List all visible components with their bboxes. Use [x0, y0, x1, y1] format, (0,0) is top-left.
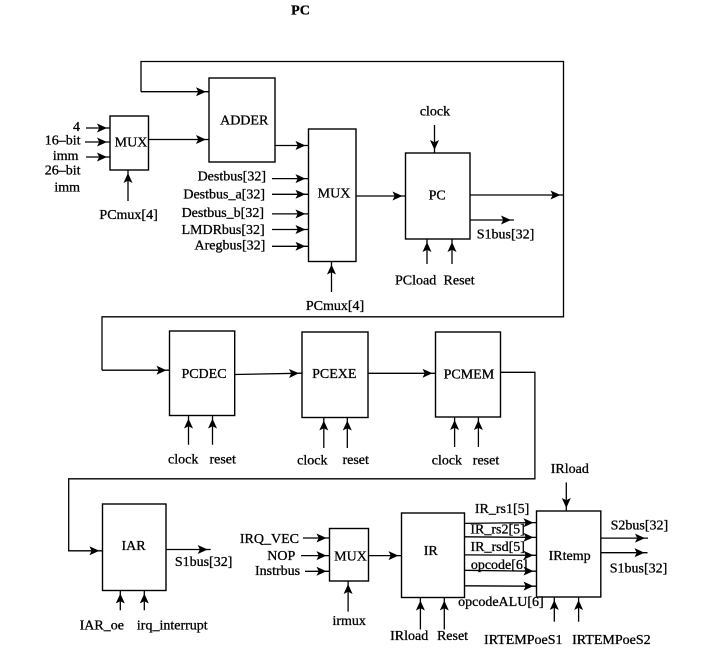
wire PCmux[4] select into M2 [331, 262, 333, 293]
wire M2 output to PC [356, 195, 406, 197]
wire arrow into PCDEC [102, 369, 170, 371]
svg-text:PC: PC [429, 188, 446, 203]
wire PCDEC to PCEXE [235, 373, 302, 374]
svg-text:Reset: Reset [437, 629, 468, 644]
wire IRload into IRtemp [565, 482, 567, 511]
svg-text:IRTEMPoeS2: IRTEMPoeS2 [572, 633, 651, 648]
wire Destbus_a[32] into M2 [272, 193, 309, 195]
wire IRload into IR [419, 598, 421, 630]
svg-text:Destbus[32]: Destbus[32] [198, 169, 266, 184]
svg-text:IRTEMPoeS1: IRTEMPoeS1 [484, 633, 563, 648]
svg-text:irmux: irmux [332, 614, 365, 629]
svg-text:26–bit: 26–bit [45, 164, 81, 179]
svg-text:PCmux[4]: PCmux[4] [99, 208, 157, 223]
wire M1 output to ADDER [149, 139, 210, 141]
wire PC output S1bus [470, 219, 514, 221]
mux M1 box [110, 116, 149, 170]
wire input 16-bit imm to M1 [85, 141, 110, 143]
svg-text:Reset: Reset [444, 274, 475, 289]
wire reset into PCMEM [477, 417, 479, 447]
svg-text:clock: clock [420, 105, 450, 120]
wire IR_rs1[5] IR to IRtemp [465, 522, 537, 525]
svg-text:IR_rs1[5]: IR_rs1[5] [475, 502, 529, 517]
svg-text:PCmux[4]: PCmux[4] [306, 299, 364, 314]
wire PCEXE to PCMEM [368, 372, 436, 374]
svg-text:clock: clock [297, 453, 327, 468]
svg-text:PCMEM: PCMEM [444, 368, 495, 383]
wire IRtemp output S2bus [601, 537, 648, 539]
wire clock into PCMEM [454, 417, 456, 447]
svg-text:16–bit: 16–bit [45, 134, 81, 149]
svg-text:S2bus[32]: S2bus[32] [611, 518, 669, 533]
wire Destbus_b[32] into M2 [272, 213, 309, 215]
wire reset into PCEXE [346, 418, 348, 449]
svg-text:PCload: PCload [395, 274, 436, 289]
svg-text:Destbus_a[32]: Destbus_a[32] [183, 188, 265, 203]
wire input 26-bit imm to M1 [86, 156, 110, 158]
wire Aregbus[32] into M2 [272, 245, 309, 247]
svg-text:opcode[6]: opcode[6] [471, 558, 528, 573]
wire reset into PCDEC [212, 416, 214, 445]
svg-text:opcodeALU[6]: opcodeALU[6] [458, 595, 544, 610]
svg-text:MUX: MUX [115, 136, 148, 151]
wire Reset into PC [451, 239, 453, 264]
svg-text:reset: reset [473, 453, 500, 468]
svg-text:IRload: IRload [551, 462, 589, 477]
register PC box [406, 153, 471, 239]
svg-text:IRload: IRload [390, 629, 428, 644]
wire Reset into IR [443, 598, 445, 630]
wire arrow into ADDER from feedback [141, 91, 209, 93]
svg-text:IR: IR [424, 544, 439, 559]
svg-text:clock: clock [432, 453, 462, 468]
mux M2 box [309, 129, 357, 262]
wire irmux select into M3 [347, 581, 349, 612]
wire IRQ_VEC into M3 [303, 537, 330, 539]
svg-text:IRQ_VEC: IRQ_VEC [240, 532, 299, 547]
svg-text:imm: imm [53, 149, 79, 164]
wire opcodeALU[6] IR to IRtemp [465, 585, 537, 587]
svg-text:Aregbus[32]: Aregbus[32] [195, 239, 266, 254]
svg-text:MUX: MUX [334, 550, 367, 565]
wire IAR output S1bus [166, 549, 211, 551]
svg-text:IRtemp: IRtemp [549, 549, 591, 564]
svg-text:imm: imm [54, 180, 80, 195]
wire PC output to feedback line [470, 194, 564, 196]
svg-text:IR_rsd[5]: IR_rsd[5] [470, 540, 524, 555]
svg-text:S1bus[32]: S1bus[32] [175, 555, 233, 570]
svg-text:irq_interrupt: irq_interrupt [137, 618, 208, 633]
wire irq_interrupt into IAR [143, 591, 145, 611]
svg-text:IAR: IAR [121, 539, 146, 554]
register IAR box [103, 504, 167, 591]
wire PCmux[4] select into M1 [127, 170, 129, 201]
register PCEXE box [302, 332, 368, 418]
wire IR_rsd[5] IR to IRtemp [465, 554, 537, 556]
wire clock into PCDEC [188, 416, 190, 445]
wire opcode[6] IR to IRtemp [465, 569, 537, 572]
svg-text:Destbus_b[32]: Destbus_b[32] [182, 206, 264, 221]
wire PCload into PC [426, 239, 428, 264]
svg-text:MUX: MUX [318, 187, 351, 202]
svg-text:IAR_oe: IAR_oe [80, 618, 124, 633]
wire IRtemp output S1bus [601, 552, 648, 554]
wire LMDRbus[32] into M2 [272, 229, 309, 231]
svg-text:NOP: NOP [267, 549, 295, 564]
svg-text:reset: reset [209, 452, 236, 467]
wire Instrbus into M3 [305, 570, 330, 572]
svg-text:S1bus[32]: S1bus[32] [610, 562, 668, 577]
svg-text:LMDRbus[32]: LMDRbus[32] [181, 223, 264, 238]
svg-text:reset: reset [342, 453, 369, 468]
svg-text:PCDEC: PCDEC [181, 367, 226, 382]
wire IR_rs2[5] IR to IRtemp [465, 536, 537, 539]
wire clock into PCEXE [323, 418, 325, 449]
svg-text:Instrbus: Instrbus [255, 564, 300, 579]
wire input 4 to M1 [86, 127, 110, 129]
wire IAR_oe into IAR [119, 591, 121, 611]
svg-text:S1bus[32]: S1bus[32] [477, 228, 535, 243]
wire PCMEM output to IAR [69, 372, 535, 551]
wire IRTEMPoeS1 into IRtemp [553, 597, 555, 622]
svg-text:PC: PC [291, 4, 310, 19]
register IR box [402, 513, 465, 598]
register PCMEM box [436, 332, 501, 417]
wire Destbus[32] into M2 [272, 178, 309, 180]
wire M3 output to IR [368, 555, 401, 557]
svg-text:ADDER: ADDER [220, 114, 269, 129]
wire NOP into M3 [301, 555, 330, 557]
svg-text:PCEXE: PCEXE [312, 367, 356, 382]
wire feedback bottom from PC line to PCDEC [102, 195, 564, 370]
svg-text:IR_rs2[5]: IR_rs2[5] [470, 523, 524, 538]
svg-text:clock: clock [168, 452, 198, 467]
wire IRTEMPoeS2 into IRtemp [578, 597, 580, 622]
register PCDEC box [170, 331, 235, 416]
mux M3 box [330, 529, 369, 582]
register IRtemp box [537, 511, 601, 597]
wire clock into PC [434, 125, 436, 153]
wire feedback top from PC to ADDER [141, 62, 564, 196]
adder box [209, 78, 275, 162]
wire ADDER output to MUX M2 [275, 145, 309, 147]
